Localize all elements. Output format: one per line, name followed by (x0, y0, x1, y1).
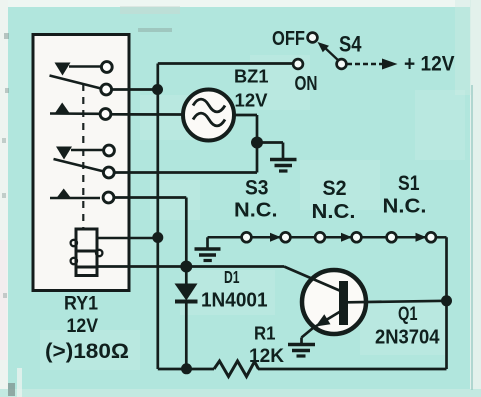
svg-text:2N3704: 2N3704 (375, 327, 440, 349)
right rail (445, 237, 448, 369)
main vertical wire (156, 64, 159, 370)
switch chain wire (208, 236, 243, 239)
relay NC contact triangle (set 2) (56, 147, 72, 160)
svg-text:ON: ON (295, 72, 318, 95)
relay terminal circle 3 (100, 109, 111, 120)
relay mechanical linkage dashed line (82, 84, 84, 228)
switch S4 common contact (337, 59, 347, 69)
wire to ground 1 (257, 141, 283, 144)
relay terminal circle 4 (104, 145, 115, 156)
relay NO contact triangle (set 1) (55, 103, 70, 114)
svg-text:12K: 12K (249, 345, 284, 367)
svg-text:S2: S2 (323, 176, 347, 200)
svg-text:OFF: OFF (272, 27, 305, 50)
wire contact5 to ground node (115, 171, 258, 174)
svg-text:12V: 12V (67, 315, 99, 337)
wire contact6 down to diode node (114, 196, 186, 199)
node dot at coil top junction (152, 232, 163, 243)
relay terminal circle 5 (103, 167, 114, 178)
node dot diode bottom (181, 363, 192, 374)
wire contact2 to main vertical (112, 88, 158, 91)
relay box RY1 outline (33, 35, 129, 291)
svg-text:S3: S3 (245, 176, 269, 200)
switch S1 contact circles and arrow (387, 232, 397, 242)
svg-text:RY1: RY1 (64, 293, 98, 315)
diode D1 leads (185, 267, 188, 285)
svg-text:BZ1: BZ1 (234, 67, 269, 87)
buzzer BZ1 (183, 90, 234, 141)
ground (switch chain) (206, 237, 209, 248)
switch S4 ON contact (293, 59, 303, 69)
wire contact3 to buzzer (111, 113, 184, 116)
wire NO contact to terminal 6 (50, 197, 100, 200)
wire buzzer right to ground node (234, 114, 257, 117)
wire NC contact to terminal 4 (71, 149, 104, 152)
svg-text:N.C.: N.C. (234, 199, 278, 222)
svg-text:S4: S4 (339, 32, 362, 57)
base lead (284, 267, 340, 291)
relay terminal circle 1 (101, 62, 112, 73)
svg-text:N.C.: N.C. (312, 200, 356, 223)
node dot buzzer ground junction (251, 137, 263, 149)
svg-text:D1: D1 (224, 267, 240, 287)
svg-text:S1: S1 (398, 172, 420, 195)
relay terminal circle 6 (103, 192, 114, 203)
svg-text:(>)180Ω: (>)180Ω (45, 339, 129, 363)
relay NC contact triangle (set 1) (55, 63, 71, 76)
ground (buzzer) (270, 158, 297, 162)
wire coil top to vertical (97, 237, 158, 240)
transistor Q1 (302, 270, 366, 334)
svg-text:12V: 12V (235, 91, 268, 111)
switch S3 contact circles and arrow (242, 232, 252, 242)
wire coil bottom to diode node (97, 265, 284, 268)
resistor R1 (214, 361, 259, 377)
switch S4 lever arrow (323, 46, 340, 62)
collector lead (348, 301, 447, 303)
ground (emitter) (288, 343, 315, 347)
svg-text:R1: R1 (254, 324, 276, 344)
svg-text:+ 12V: + 12V (404, 53, 455, 76)
relay pole (set 2) (54, 159, 105, 172)
wire NO contact to terminal 3 (50, 112, 100, 115)
wire NC contact to terminal 1 (69, 65, 101, 68)
node dot collector junction (441, 295, 452, 306)
node dot at contact2 junction (152, 84, 163, 95)
switch S2 contact circles and arrow (315, 232, 325, 242)
wire S4 common to +12V arrow (347, 63, 384, 65)
diode D1 (175, 284, 198, 301)
relay pole (set 1) (50, 76, 102, 89)
node dot at diode top (180, 261, 192, 273)
bottom rail (158, 368, 214, 371)
emitter lead with arrow (313, 310, 344, 329)
relay coil (76, 229, 97, 276)
wire top to S4 ON contact (158, 62, 294, 65)
switch S4: OFF contact (308, 33, 318, 43)
relay terminal circle 2 (101, 84, 112, 95)
svg-text:Q1: Q1 (398, 303, 418, 325)
svg-text:1N4001: 1N4001 (201, 290, 268, 312)
svg-text:N.C.: N.C. (383, 195, 427, 218)
relay NO contact triangle (set 2) (57, 189, 72, 199)
